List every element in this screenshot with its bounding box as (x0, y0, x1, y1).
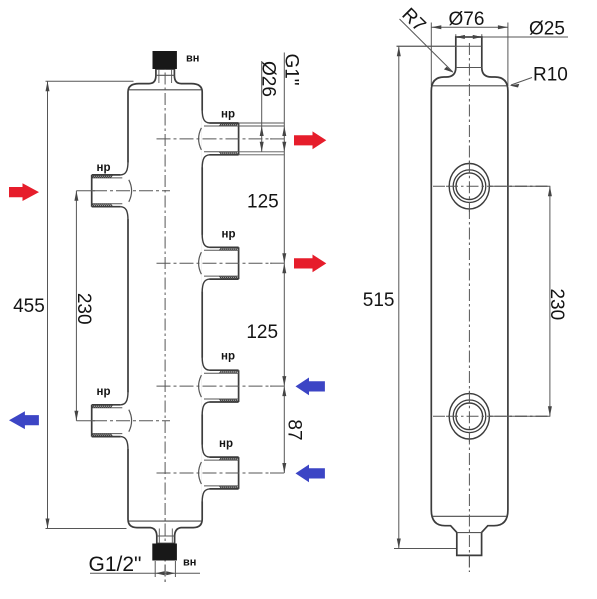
top neck collar line (front) (156, 74, 175, 76)
centerline of right nozzle N2 (157, 262, 273, 264)
dimension Ø25 extension line left (455, 34, 457, 39)
svg-text:G1": G1" (281, 53, 302, 85)
separator body outline (front view) (128, 69, 202, 544)
upper side port (concentric circles) (446, 161, 550, 212)
axis over body (side view) (468, 43, 470, 572)
svg-text:R10: R10 (533, 65, 568, 86)
chain arrow down at nozzle N2 center (282, 253, 286, 263)
dimension 515 arrow top (397, 46, 401, 56)
red flow arrow out of nozzle N2 (294, 255, 326, 273)
red flow arrow into left nozzle L1 (9, 183, 39, 201)
bottom neck collar line (side) (457, 532, 482, 534)
dimension 455 arrow bottom (46, 519, 50, 529)
radius R10 leader line (511, 78, 532, 86)
svg-text:Ø76: Ø76 (449, 9, 485, 30)
chain arrow down at nozzle N4 center (282, 463, 286, 473)
svg-text:нр: нр (97, 162, 111, 174)
dimension 455 extension line bottom (46, 528, 127, 530)
centerline solid end at dim line, nozzle N2 (270, 262, 284, 264)
dimension G1/2" line (90, 572, 200, 574)
centerline of left nozzle L2 (93, 420, 170, 422)
chain arrow up at nozzle N3 center (282, 386, 286, 396)
svg-text:G1/2": G1/2" (89, 553, 142, 576)
bottom neck thread bore line right (171, 529, 173, 544)
dimension Ø26 arrow bottom (260, 142, 264, 152)
weld seam line above bottom dome (129, 520, 201, 522)
centerline: vertical axis of separator (front view) (164, 52, 166, 583)
dimension 230 arrow top (74, 191, 78, 201)
svg-text:125: 125 (246, 322, 278, 343)
top neck thread bore line left (158, 70, 160, 84)
svg-text:нр: нр (219, 438, 233, 450)
dimension G1/2" arrow right (166, 571, 175, 575)
blue flow arrow out of left nozzle L2 (9, 411, 39, 429)
centerline solid end at dim line, nozzle N1 (270, 138, 284, 140)
dimension chain line G1"/125/125/87 (283, 53, 285, 474)
centerline: axis over body (164, 52, 166, 583)
svg-text:вн: вн (183, 556, 196, 568)
dimension 230 arrow bottom (74, 411, 78, 421)
dimension Ø76 line (431, 26, 508, 28)
dimension Ø76 extension line left (430, 23, 432, 87)
red flow arrow out of nozzle N1 (294, 131, 326, 149)
svg-text:нр: нр (222, 228, 236, 240)
centerline solid end at dim line, nozzle L2 (76, 420, 95, 422)
centerline: vertical axis (side view) (468, 43, 470, 572)
dimension Ø76 arrow right (498, 25, 508, 29)
right nozzle N2 (supply outlet) (199, 234, 239, 292)
dimension G1/2" extension line right (174, 561, 176, 577)
blue flow arrow into nozzle N4 (296, 465, 325, 483)
svg-text:455: 455 (13, 296, 45, 317)
dimension Ø26 arrow top (260, 126, 264, 136)
svg-text:нр: нр (221, 351, 235, 363)
left nozzle L1 (boiler supply inlet) (92, 162, 132, 220)
dimension 515 extension over neck (redrawn) (397, 45, 482, 47)
dimension 230 line (side view) (549, 186, 551, 416)
dimension Ø25 line (456, 36, 568, 38)
dimension 455 extension line top (46, 80, 134, 82)
centerline of left nozzle L1 (93, 190, 170, 192)
dimension 230 arrow bottom (side) (548, 406, 552, 416)
weld seam below top dome (side) (432, 85, 507, 87)
dimension Ø25 arrow right (redrawn) (473, 35, 482, 39)
right nozzle N1 (supply outlet, G1") (199, 110, 285, 168)
centerline solid end at dim line, nozzle N4 (270, 472, 284, 474)
centerline solid end at dim line, nozzle L1 (76, 190, 95, 192)
centerline through lower port (433, 415, 550, 417)
blue flow arrow into nozzle N3 (296, 378, 325, 396)
right nozzle N4 (return inlet) (199, 444, 239, 502)
chain arrow up at nozzle N1 top thread (282, 126, 286, 136)
chain arrow up at nozzle N2 center (282, 263, 286, 273)
svg-text:87: 87 (284, 419, 305, 440)
dimension 515 extension line top (397, 45, 482, 47)
weld seam line below top dome (129, 89, 201, 91)
dimension Ø26 line (261, 61, 263, 152)
separator body outline (side view) (431, 37, 508, 555)
left nozzle L2 (boiler return outlet) (92, 392, 132, 450)
dimension 515 extension line bottom (394, 548, 457, 550)
chain arrow down at nozzle N1 bottom thread (282, 142, 286, 152)
svg-text:нр: нр (97, 386, 111, 398)
right nozzle N3 (return inlet) (199, 357, 239, 415)
centerline of right nozzle N1 (157, 138, 273, 140)
bottom neck thread bore line left (158, 529, 160, 544)
dimension 515 arrow bottom (397, 539, 401, 549)
radius R7 leader line (400, 19, 453, 72)
centerline of right nozzle N3 (157, 385, 273, 387)
top neck collar line (side) (456, 67, 482, 69)
svg-text:Ø25: Ø25 (529, 19, 565, 40)
top neck thread bore line right (171, 70, 173, 84)
dimension Ø25 extension line right (481, 34, 483, 39)
dimension 455 arrow top (46, 81, 50, 91)
centerline through upper port (433, 185, 550, 187)
weld seam above bottom dome (side) (432, 515, 507, 517)
lower port centerline over body (433, 415, 550, 417)
svg-text:515: 515 (363, 290, 395, 311)
svg-text:230: 230 (546, 288, 567, 320)
lower side port (concentric circles) (446, 391, 550, 442)
dimension Ø76 arrow left (431, 25, 441, 29)
svg-text:вн: вн (186, 53, 199, 65)
dimension Ø25 line over neck (redrawn) (456, 36, 482, 38)
dimension Ø76 extension line right (507, 23, 509, 87)
dimension Ø25 arrow left (redrawn) (456, 35, 465, 39)
dimension G1/2" extension line left (154, 561, 156, 577)
dimension 230 arrow top (side) (548, 186, 552, 196)
svg-text:230: 230 (73, 293, 94, 325)
dimension G1/2" arrow left (155, 571, 164, 575)
upper port centerline over body (433, 185, 550, 187)
dimension 455 line (47, 81, 49, 528)
svg-text:125: 125 (247, 192, 279, 213)
radius R10 leader arrowhead (510, 84, 520, 88)
dimension Ø25 arrow left (456, 35, 465, 39)
bottom neck collar line (front) (157, 535, 175, 537)
centerline of right nozzle N4 (157, 472, 273, 474)
bottom fitting thread (black, G1/2 BH) (152, 544, 177, 561)
top fitting thread (black, BH) (153, 51, 177, 69)
svg-text:нр: нр (221, 109, 235, 121)
radius R7 leader arrowhead (444, 67, 454, 73)
dimension 515 line (398, 46, 400, 548)
centerline solid end at dim line, nozzle N3 (270, 385, 284, 387)
chain arrow down at nozzle N3 center (282, 376, 286, 386)
svg-text:Ø26: Ø26 (258, 61, 279, 97)
dimension 230 line (front view) (75, 191, 77, 421)
dimension Ø25 arrow right (473, 35, 482, 39)
